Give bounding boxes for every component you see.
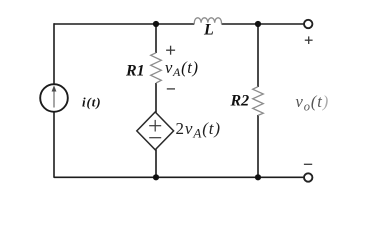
minus sign of vA — [167, 88, 175, 90]
resistor R2 zigzag — [253, 87, 264, 116]
svg-text:R2: R2 — [230, 93, 250, 110]
wire top-left segment — [54, 23, 194, 25]
plus sign output — [305, 36, 313, 44]
plus sign of vA — [166, 46, 175, 55]
inductor L coil — [194, 18, 221, 24]
node junction dot top right — [255, 21, 261, 27]
resistor R1 zigzag — [151, 53, 162, 83]
wire middle branch lower — [155, 150, 157, 178]
wire right branch upper — [257, 24, 259, 87]
svg-text:R1: R1 — [125, 63, 145, 80]
node junction dot bottom right — [255, 174, 261, 180]
node junction dot top middle — [153, 21, 159, 27]
current source i(t) circle — [40, 84, 68, 112]
wire middle branch upper — [155, 24, 157, 53]
svg-text:vA(t): vA(t) — [165, 58, 199, 79]
plus inside diamond — [149, 120, 161, 132]
current source arrow — [52, 85, 57, 107]
svg-text:L: L — [203, 22, 214, 39]
minus inside diamond — [149, 137, 161, 139]
wire middle branch mid — [155, 83, 157, 113]
svg-text:vo(t): vo(t) — [296, 92, 330, 114]
node junction dot bottom middle — [153, 174, 159, 180]
terminal bottom right — [304, 173, 312, 181]
wire left rail lower — [53, 112, 55, 178]
wire right branch lower — [257, 115, 259, 177]
wire top-right segment — [222, 23, 304, 25]
svg-text:2vA(t): 2vA(t) — [176, 119, 221, 141]
svg-text:i(t): i(t) — [82, 95, 101, 110]
wire left rail upper — [53, 23, 55, 84]
dependent source diamond — [137, 112, 174, 150]
wire bottom — [54, 176, 304, 178]
minus sign output — [304, 163, 312, 165]
terminal top right — [304, 20, 312, 28]
